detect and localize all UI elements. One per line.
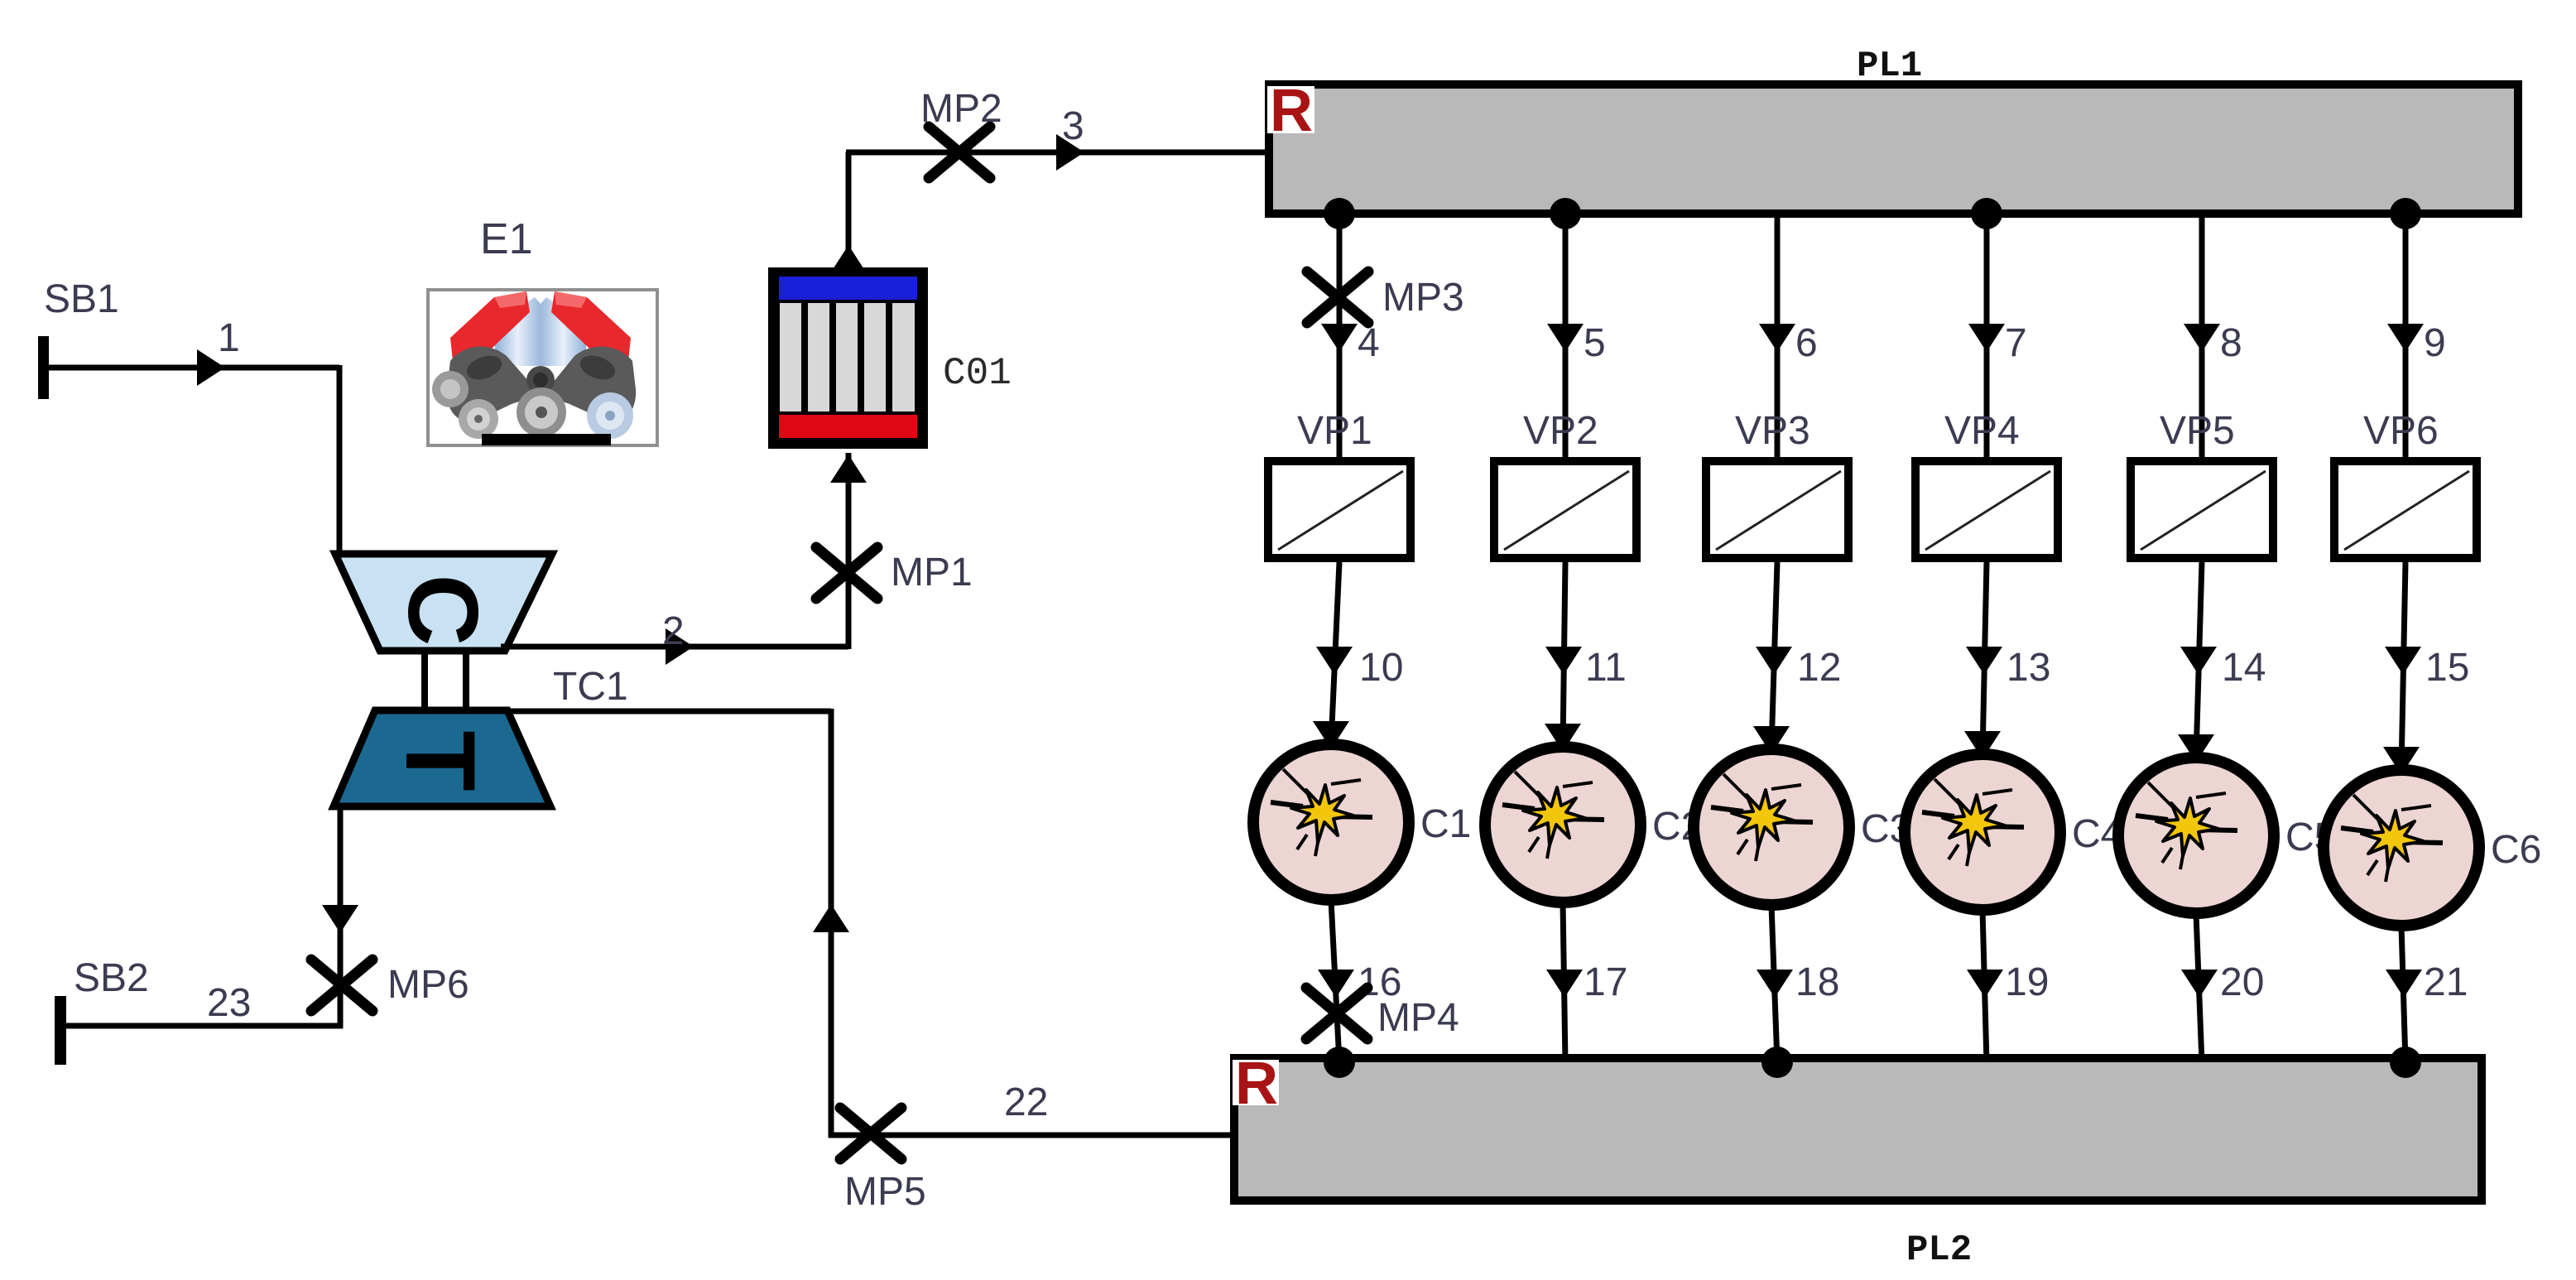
svg-text:PL1: PL1: [1857, 46, 1922, 87]
svg-text:5: 5: [1584, 321, 1606, 365]
wire 11 VP2 to cylinder: [1563, 562, 1565, 747]
valve MP1: [816, 547, 877, 599]
arrow on wire 6: [1759, 324, 1795, 352]
junction node PL2 branch 6: [2390, 1047, 2421, 1078]
svg-text:SB2: SB2: [74, 956, 149, 1000]
arrow on wire 3: [1056, 134, 1084, 171]
arrow on riser to turbine: [813, 904, 849, 932]
TC1 shaft: [421, 651, 428, 712]
pipe element VP1: [1268, 461, 1411, 558]
arrow at cylinder C1 inlet: [1313, 721, 1349, 749]
pipe element VP6: [2334, 461, 2477, 558]
wire 9 PL1 to VP6: [2403, 214, 2409, 460]
junction node PL1 branch 1: [1324, 198, 1355, 229]
junction node PL1 branch 4: [1971, 198, 2002, 229]
svg-text:13: 13: [2006, 646, 2050, 690]
wire 3 to plenum PL1: [846, 150, 1269, 156]
svg-text:TC1: TC1: [553, 665, 628, 709]
arrow on wire 2: [666, 628, 694, 665]
wire 17 cylinder to PL2: [1563, 902, 1565, 1062]
svg-text:VP4: VP4: [1944, 409, 2020, 453]
pipe element VP5: [2131, 461, 2273, 558]
wire 20 cylinder to PL2: [2196, 913, 2202, 1062]
wire 14 VP5 to cylinder: [2196, 562, 2202, 758]
wire 2 vertical up to cooler: [846, 453, 852, 649]
wire 5 PL1 to VP2: [1563, 214, 1569, 460]
wire 10 VP1 to cylinder: [1331, 562, 1339, 744]
svg-text:3: 3: [1062, 104, 1084, 148]
svg-text:7: 7: [2005, 321, 2027, 365]
svg-text:VP5: VP5: [2160, 409, 2235, 453]
svg-text:11: 11: [1585, 646, 1627, 690]
arrow on wire 8: [2184, 324, 2220, 352]
wire 12 VP3 to cylinder: [1771, 562, 1777, 749]
svg-text:12: 12: [1797, 646, 1841, 690]
wire cooler to MP2 corner: [846, 152, 852, 270]
svg-text:MP5: MP5: [844, 1170, 926, 1214]
svg-text:R: R: [1270, 78, 1313, 144]
pipe element VP4: [1915, 461, 2058, 558]
arrow on wire 19: [1967, 970, 2003, 998]
cooler C01: [768, 267, 928, 449]
arrow on wire 18: [1757, 970, 1793, 998]
pipe element VP2: [1494, 461, 1636, 558]
svg-text:VP6: VP6: [2363, 409, 2439, 453]
cylinder C6: [2324, 770, 2479, 926]
svg-text:MP2: MP2: [920, 87, 1002, 131]
arrow at cylinder C5 inlet: [2178, 734, 2214, 763]
svg-text:14: 14: [2222, 646, 2266, 690]
cylinder C5: [2118, 758, 2274, 913]
svg-text:2: 2: [662, 609, 685, 653]
arrow on wire 21: [2386, 970, 2422, 998]
arrow at cylinder C6 inlet: [2383, 747, 2420, 775]
svg-text:C1: C1: [1420, 802, 1471, 846]
arrow on wire 20: [2181, 970, 2218, 998]
arrow at cylinder C2 inlet: [1545, 724, 1581, 752]
wire 19 cylinder to PL2: [1982, 910, 1987, 1062]
svg-text:8: 8: [2220, 321, 2242, 365]
svg-text:VP2: VP2: [1523, 409, 1598, 453]
junction node PL1 branch 6: [2390, 198, 2421, 229]
wire turbine outlet down: [338, 806, 344, 1028]
svg-text:MP1: MP1: [891, 551, 973, 594]
svg-text:E1: E1: [480, 215, 533, 263]
plenum PL2: [1234, 1058, 2482, 1201]
svg-text:15: 15: [2425, 646, 2469, 690]
svg-text:VP3: VP3: [1735, 409, 1810, 453]
system boundary SB1: [38, 336, 49, 399]
valve MP2: [929, 127, 990, 178]
svg-text:18: 18: [1795, 960, 1839, 1004]
svg-text:T: T: [385, 730, 496, 791]
wire 7 PL1 to VP4: [1984, 214, 1990, 460]
wire 4 PL1 to VP1: [1337, 214, 1343, 460]
turbine inlet wire from MP5 riser: [507, 709, 831, 715]
svg-text:VP1: VP1: [1297, 409, 1372, 453]
svg-text:4: 4: [1358, 321, 1380, 365]
svg-text:MP4: MP4: [1377, 996, 1459, 1040]
arrow at cylinder C4 inlet: [1964, 731, 2001, 759]
arrow on wire 14: [2180, 647, 2217, 675]
arrow on turbine outlet wire: [322, 905, 358, 933]
svg-text:C01: C01: [943, 352, 1012, 395]
arrow above cooler: [830, 245, 867, 273]
PL2 R marker: [1233, 1060, 1279, 1105]
svg-text:10: 10: [1359, 646, 1403, 690]
arrow on wire 7: [1968, 324, 2005, 352]
wire 21 cylinder to PL2: [2401, 926, 2405, 1062]
junction node PL2 branch 1: [1324, 1047, 1355, 1078]
wire 6 PL1 to VP3: [1775, 214, 1781, 460]
junction node PL2 branch 3: [1761, 1047, 1793, 1078]
svg-text:R: R: [1235, 1051, 1278, 1117]
arrow on wire 9: [2387, 324, 2424, 352]
wire 1 SB1 to junction: [43, 365, 339, 371]
cylinder C3: [1694, 749, 1849, 905]
PL1 R marker: [1267, 86, 1314, 133]
wire 22 PL2 to MP5: [829, 1133, 1234, 1138]
arrow at cylinder C3 inlet: [1753, 726, 1790, 754]
svg-text:21: 21: [2424, 960, 2468, 1004]
arrow on wire 4: [1321, 324, 1358, 352]
wire 15 VP6 to cylinder: [2401, 562, 2405, 770]
wire SB1 junction down to compressor: [337, 365, 343, 556]
valve MP4: [1306, 988, 1367, 1039]
arrow on wire 10: [1316, 647, 1353, 675]
valve MP6: [311, 960, 372, 1011]
valve MP3: [1307, 272, 1368, 323]
wire 13 VP4 to cylinder: [1982, 562, 1987, 754]
cylinder C2: [1485, 747, 1641, 902]
svg-text:19: 19: [2005, 960, 2049, 1004]
svg-text:1: 1: [218, 316, 240, 360]
arrow on wire 12: [1756, 647, 1792, 675]
turbocharger TC1 turbine: [334, 710, 550, 806]
cylinder C4: [1905, 754, 2060, 910]
svg-text:MP6: MP6: [387, 963, 469, 1007]
arrow on wire 16: [1318, 970, 1354, 998]
cylinder C1: [1253, 744, 1409, 900]
wire 16 cylinder to PL2: [1331, 900, 1339, 1062]
turbocharger TC1 compressor: [335, 554, 552, 651]
svg-text:23: 23: [207, 981, 251, 1025]
valve MP5: [840, 1108, 901, 1159]
arrow on wire 5: [1547, 324, 1584, 352]
arrow on wire 11: [1545, 647, 1582, 675]
svg-text:9: 9: [2424, 321, 2446, 365]
engine E1 icon: [428, 290, 657, 445]
pipe element VP3: [1706, 461, 1848, 558]
system boundary SB2: [55, 996, 66, 1065]
wire 23 to SB2: [60, 1023, 343, 1029]
svg-text:PL2: PL2: [1906, 1229, 1972, 1271]
wire 18 cylinder to PL2: [1771, 905, 1777, 1062]
arrow on wire 13: [1966, 647, 2002, 675]
svg-text:17: 17: [1584, 960, 1627, 1004]
svg-text:C6: C6: [2491, 828, 2541, 872]
riser wire MP5 to turbine: [829, 709, 834, 1138]
svg-text:MP3: MP3: [1382, 276, 1464, 320]
arrow on wire 15: [2385, 647, 2421, 675]
svg-text:SB1: SB1: [44, 277, 119, 321]
wire 8 PL1 to VP5: [2199, 214, 2205, 460]
junction node PL1 branch 2: [1550, 198, 1581, 229]
plenum PL1: [1269, 84, 2518, 214]
wire 2 compressor outlet: [501, 644, 848, 650]
arrow on wire 17: [1546, 970, 1583, 998]
arrow on wire 1: [197, 349, 225, 386]
svg-text:22: 22: [1004, 1080, 1048, 1124]
svg-text:6: 6: [1795, 321, 1818, 365]
svg-text:C: C: [387, 575, 498, 647]
arrow into cooler C01: [830, 455, 867, 483]
svg-text:20: 20: [2220, 960, 2264, 1004]
